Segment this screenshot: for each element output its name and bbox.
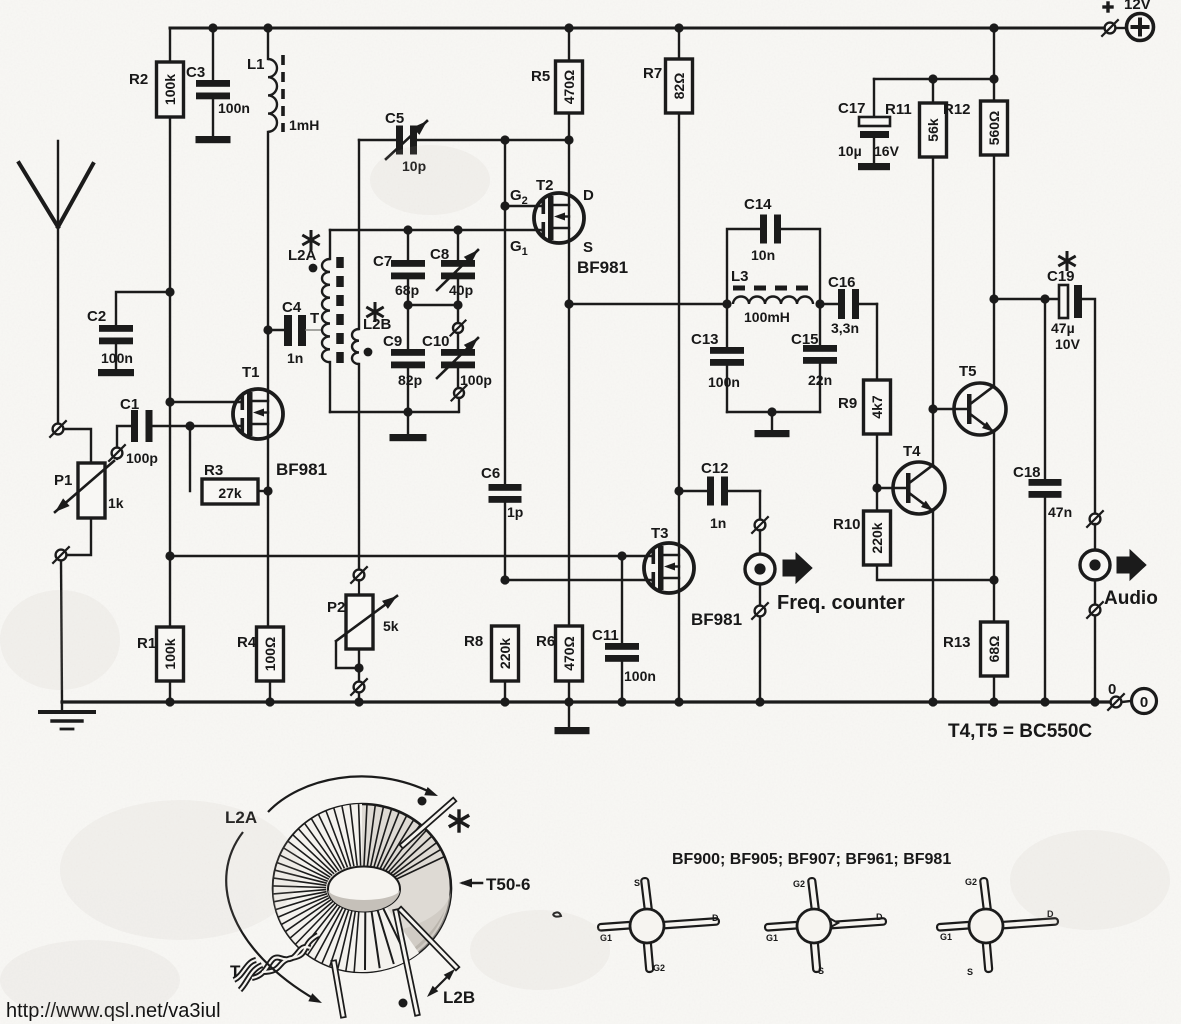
- svg-text:R13: R13: [943, 634, 971, 651]
- P2 top connector: [354, 570, 365, 581]
- BF pinout package 3: [980, 878, 991, 913]
- wire: T5 collector to C19: [994, 294, 1059, 303]
- toroid lead dot (bottom): [399, 999, 408, 1008]
- P1 wiper connector: [112, 448, 123, 459]
- svg-text:220k: 220k: [869, 522, 885, 553]
- wire: L3 tank bottom: [727, 407, 820, 416]
- svg-text:R7: R7: [643, 65, 662, 82]
- svg-text:100k: 100k: [162, 74, 178, 105]
- wire: tank bottom: [330, 407, 458, 416]
- L2B phasing dot: [364, 348, 373, 357]
- svg-text:BF981: BF981: [691, 610, 742, 629]
- audio jack: [1080, 524, 1110, 580]
- L2B asterisk: [374, 304, 377, 321]
- svg-text:C9: C9: [383, 333, 402, 350]
- svg-text:R10: R10: [833, 516, 861, 533]
- svg-text:L2B: L2B: [363, 316, 392, 333]
- wire: connector to ground rail: [61, 561, 62, 702]
- transistor T1 BF981: [233, 389, 283, 439]
- svg-text:C12: C12: [701, 460, 729, 477]
- inductor L2B: [352, 329, 359, 364]
- svg-text:T1: T1: [242, 364, 260, 381]
- wire: T2 source to L3 tank: [564, 299, 727, 308]
- toroid asterisk (lead): [457, 811, 460, 831]
- inductor L2A: [322, 230, 330, 412]
- wire: C5/G2 node down to C6: [500, 140, 509, 484]
- L2A phasing dot: [309, 264, 318, 273]
- twisted pair T leads: [234, 935, 318, 990]
- svg-text:3,3n: 3,3n: [831, 320, 859, 336]
- freq counter bottom connector: [752, 584, 768, 707]
- svg-text:G2: G2: [793, 879, 805, 889]
- svg-text:L2B: L2B: [443, 988, 475, 1007]
- capacitor C11 100n: [592, 556, 656, 707]
- L2B double arrow: [427, 969, 455, 997]
- transistor T2 BF981: [534, 193, 584, 243]
- resistor R11 56k: [885, 79, 947, 409]
- svg-text:G1: G1: [940, 932, 952, 942]
- tank ground: [390, 412, 427, 441]
- svg-text:47n: 47n: [1048, 504, 1072, 520]
- svg-text:T2: T2: [536, 177, 554, 194]
- L2A winding arc arrow (left): [226, 832, 322, 1003]
- wire: T2 G2 lead: [505, 205, 542, 207]
- svg-text:R6: R6: [536, 633, 555, 650]
- svg-text:C3: C3: [186, 64, 205, 81]
- svg-text:R9: R9: [838, 395, 857, 412]
- capacitor C6 1p: [481, 465, 523, 585]
- audio top connector: [1090, 514, 1101, 525]
- svg-text:D: D: [583, 187, 594, 204]
- svg-text:470Ω: 470Ω: [561, 70, 577, 105]
- wire: P1 bottom to ground connector: [67, 518, 91, 555]
- L3 tank ground: [755, 412, 790, 437]
- capacitor C17 10µ/16V electrolytic: [838, 79, 900, 170]
- svg-text:C17: C17: [838, 100, 866, 117]
- svg-text:560Ω: 560Ω: [986, 111, 1002, 146]
- ground symbol: [40, 702, 94, 729]
- svg-text:220k: 220k: [497, 638, 513, 669]
- BF pinout package 2: [808, 878, 819, 913]
- inductor L1 1mH: [247, 28, 319, 133]
- capacitor C2 100n: [87, 292, 170, 376]
- wire: G2 bias line to T3: [170, 551, 653, 560]
- svg-text:G1: G1: [766, 933, 778, 943]
- L3 tank loop with C14: [722, 229, 824, 309]
- resistor R12 560Ω: [943, 28, 1008, 304]
- wire: C19 to audio jack: [1082, 299, 1095, 513]
- wire: P2 to ground rail: [358, 693, 360, 702]
- wire: C6/R8 to T3 G1: [505, 579, 653, 581]
- svg-text:1p: 1p: [507, 504, 523, 520]
- svg-text:27k: 27k: [218, 485, 242, 501]
- svg-text:47µ: 47µ: [1051, 320, 1075, 336]
- +12V supply terminal: [1102, 3, 1153, 41]
- svg-text:G2: G2: [965, 877, 977, 887]
- svg-text:C5: C5: [385, 110, 404, 127]
- resistor R13 68Ω: [943, 622, 1008, 707]
- R6 chassis ground bar: [555, 702, 590, 734]
- svg-text:T4,T5 = BC550C: T4,T5 = BC550C: [948, 721, 1092, 742]
- svg-text:L2A: L2A: [288, 247, 317, 264]
- wire: +12V top rail: [170, 23, 1104, 32]
- svg-text:T3: T3: [651, 525, 669, 542]
- svg-text:T4: T4: [903, 443, 921, 460]
- toroid lead dot (top): [418, 797, 427, 806]
- svg-text:1n: 1n: [287, 350, 303, 366]
- wire: T5 emitter to R13: [993, 433, 995, 622]
- wire: R7 / T3 drain-source vertical: [674, 113, 683, 707]
- wire: T4 base lead: [877, 487, 906, 489]
- stray mark: [553, 912, 561, 916]
- toroid lead wires (bottom): [334, 910, 456, 1015]
- svg-text:100Ω: 100Ω: [262, 637, 278, 672]
- svg-text:0: 0: [1108, 681, 1116, 698]
- capacitor C13 100n: [691, 304, 744, 412]
- wire: T5 base lead: [933, 408, 967, 410]
- svg-text:L1: L1: [247, 56, 265, 73]
- svg-text:P2: P2: [327, 599, 345, 616]
- wire: P2 wiper tie-down: [336, 643, 364, 682]
- wire: T2 source to R6: [568, 304, 570, 626]
- svg-text:68p: 68p: [395, 282, 419, 298]
- potentiometer P1 1k: [54, 448, 124, 518]
- wire: T4 emitter to ground: [928, 511, 937, 707]
- capacitor C14 10n: [744, 196, 781, 263]
- svg-text:C6: C6: [481, 465, 500, 482]
- resistor R5 470Ω: [531, 28, 583, 140]
- audio output arrow: [1117, 550, 1146, 580]
- svg-text:10µ: 10µ: [838, 143, 862, 159]
- svg-text:100n: 100n: [101, 350, 133, 366]
- svg-text:R8: R8: [464, 633, 483, 650]
- svg-text:100k: 100k: [162, 638, 178, 669]
- svg-text:C14: C14: [744, 196, 772, 213]
- svg-text:R4: R4: [237, 634, 257, 651]
- svg-text:C16: C16: [828, 274, 856, 291]
- capacitor C15 22n: [791, 304, 837, 412]
- capacitor C1 100p: [120, 396, 158, 466]
- wire: second rail (C17/R11/R12): [874, 74, 999, 83]
- resistor R4 100Ω: [237, 627, 284, 707]
- trimmer capacitor C8 40p: [430, 230, 478, 305]
- svg-text:40p: 40p: [449, 282, 473, 298]
- transistor T4 BC550C: [893, 462, 945, 514]
- svg-text:S: S: [634, 878, 640, 888]
- svg-text:R1: R1: [137, 635, 156, 652]
- P2 bottom connector: [354, 682, 365, 693]
- wire: R2 bottom / bias divider vertical: [165, 117, 174, 627]
- inductor L3 100mH: [731, 268, 813, 325]
- svg-text:Audio: Audio: [1104, 588, 1158, 609]
- resistor R10 220k: [833, 488, 891, 565]
- svg-text:C18: C18: [1013, 464, 1041, 481]
- svg-text:C8: C8: [430, 246, 449, 263]
- wire: ground rail: [62, 700, 1110, 703]
- L2A winding arc arrow (top): [268, 776, 438, 812]
- svg-text:12V: 12V: [1124, 0, 1151, 13]
- svg-text:68Ω: 68Ω: [986, 636, 1002, 663]
- wire: R10 bottom to T5 emitter: [877, 565, 999, 585]
- svg-text:100p: 100p: [460, 372, 492, 388]
- svg-text:C2: C2: [87, 308, 106, 325]
- svg-text:T: T: [310, 310, 319, 327]
- transistor T5 BC550C: [954, 383, 1006, 435]
- wire: T1 G2 bias: [170, 401, 242, 403]
- toroid core T50-6 with windings (L2A/L2B/T): [273, 804, 451, 972]
- wire: P1 wiper to C1: [117, 426, 131, 447]
- svg-text:16V: 16V: [874, 143, 900, 159]
- capacitor C7 68p: [373, 230, 425, 305]
- svg-text:C13: C13: [691, 331, 719, 348]
- capacitor C3: [186, 28, 250, 143]
- svg-text:D: D: [712, 913, 719, 923]
- svg-text:4k7: 4k7: [869, 395, 885, 419]
- svg-text:R2: R2: [129, 71, 148, 88]
- capacitor C18 47n: [1013, 299, 1072, 707]
- audio bottom connector: [1087, 580, 1103, 707]
- svg-text:82p: 82p: [398, 372, 422, 388]
- svg-text:BF981: BF981: [276, 460, 327, 479]
- svg-text:0: 0: [1140, 694, 1148, 711]
- svg-text:82Ω: 82Ω: [671, 73, 687, 100]
- svg-text:C15: C15: [791, 331, 819, 348]
- resistor R2: [129, 28, 184, 117]
- svg-text:BF981: BF981: [577, 258, 628, 277]
- svg-text:100p: 100p: [126, 450, 158, 466]
- capacitor C9 82p: [383, 305, 425, 412]
- svg-text:L3: L3: [731, 268, 749, 285]
- svg-text:100n: 100n: [708, 374, 740, 390]
- svg-text:S: S: [583, 239, 593, 256]
- svg-text:C10: C10: [422, 333, 450, 350]
- toroid lead wire (L2A start, top right): [403, 801, 453, 845]
- svg-text:T50-6: T50-6: [486, 875, 530, 894]
- svg-text:10n: 10n: [751, 247, 775, 263]
- svg-text:100mH: 100mH: [744, 309, 790, 325]
- antenna input connector: [53, 424, 64, 435]
- svg-text:P1: P1: [54, 472, 72, 489]
- trimmer capacitor C5 10p: [359, 110, 574, 174]
- svg-text:R5: R5: [531, 68, 550, 85]
- svg-text:100n: 100n: [218, 100, 250, 116]
- svg-text:D: D: [876, 912, 883, 922]
- capacitor C12 1n: [679, 460, 760, 531]
- antenna: [19, 141, 93, 423]
- 0V terminal: [1108, 681, 1157, 714]
- resistor R3 27k: [190, 426, 273, 504]
- svg-text:S: S: [818, 966, 824, 976]
- svg-text:C11: C11: [592, 627, 619, 644]
- resistor R6 470Ω: [536, 626, 583, 707]
- svg-text:22n: 22n: [808, 372, 832, 388]
- wire: tank top (L2A/C7/C8 to T2 G1): [330, 225, 543, 234]
- resistor R7 82Ω: [643, 28, 693, 113]
- svg-text:56k: 56k: [925, 118, 941, 142]
- wire: tank middle: [403, 300, 462, 309]
- wire: C5 left / L2B branch: [358, 140, 360, 329]
- svg-text:S: S: [967, 967, 973, 977]
- capacitor C16 3,3n: [820, 274, 877, 336]
- wire: L1 / T1 drain vertical: [263, 132, 272, 627]
- svg-text:C4: C4: [282, 299, 302, 316]
- svg-text:R11: R11: [885, 101, 912, 118]
- svg-text:C7: C7: [373, 253, 392, 270]
- svg-text:R12: R12: [943, 101, 971, 118]
- freq counter jack: [745, 530, 775, 584]
- svg-text:470Ω: 470Ω: [561, 636, 577, 671]
- transformer core (dashed): [336, 257, 344, 368]
- wire: T2 drain/source vertical: [568, 140, 570, 304]
- svg-text:Freq. counter: Freq. counter: [777, 592, 905, 614]
- svg-text:R3: R3: [204, 462, 223, 479]
- svg-text:BF900; BF905; BF907; BF961; BF: BF900; BF905; BF907; BF961; BF981: [672, 851, 951, 868]
- svg-text:100n: 100n: [624, 668, 656, 684]
- svg-text:C19: C19: [1047, 268, 1075, 285]
- L2A asterisk: [310, 232, 313, 249]
- wire: L2B to P2: [358, 364, 360, 570]
- potentiometer P2 5k: [327, 580, 399, 649]
- svg-text:5k: 5k: [383, 618, 399, 634]
- wire: C1 to T1 gate 1: [153, 421, 243, 430]
- svg-text:C1: C1: [120, 396, 139, 413]
- freq counter output arrow: [783, 553, 812, 583]
- capacitor C4 1n: [268, 299, 321, 366]
- svg-text:1k: 1k: [108, 495, 124, 511]
- BF pinout package 1: [641, 878, 652, 913]
- wire: antenna to P1: [64, 429, 91, 463]
- svg-text:1mH: 1mH: [289, 117, 319, 133]
- T50-6 callout arrow: [459, 879, 482, 888]
- trimmer capacitor C10 100p: [422, 305, 492, 412]
- svg-text:T: T: [230, 962, 241, 981]
- wire: T5 collector: [993, 299, 995, 386]
- svg-text:T5: T5: [959, 363, 977, 380]
- P1 ground connector: [56, 550, 67, 561]
- freq counter output connector (top): [752, 491, 768, 533]
- resistor R8 220k: [464, 626, 519, 707]
- capacitor C19 47µ/10V electrolytic: [1047, 253, 1082, 353]
- svg-text:1n: 1n: [710, 515, 726, 531]
- svg-text:G2: G2: [653, 963, 665, 973]
- svg-text:10V: 10V: [1055, 336, 1081, 352]
- transistor T3 BF981: [644, 543, 694, 593]
- resistor R9 4k7: [838, 304, 891, 493]
- resistor R1: [137, 627, 184, 707]
- wire: T4 collector to R11/T5 base node: [928, 404, 937, 465]
